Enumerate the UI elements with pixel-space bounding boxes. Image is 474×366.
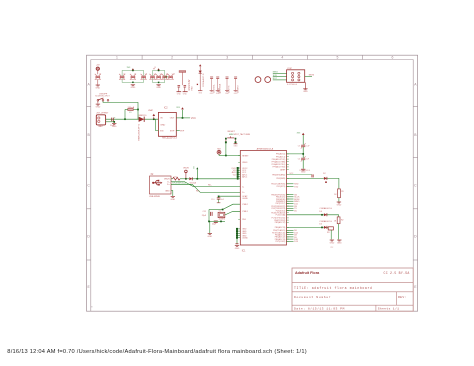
diode D2 bbox=[323, 173, 327, 183]
wire xtal top bbox=[209, 204, 240, 209]
wire row D4 bbox=[287, 214, 324, 216]
svg-text:+3V: +3V bbox=[96, 65, 100, 67]
svg-text:UGND: UGND bbox=[242, 238, 248, 240]
MCU IC1 ATMEGA32U4 bbox=[240, 147, 286, 252]
wire net SCLK bbox=[287, 197, 301, 199]
capacitor C2 group1 bbox=[130, 73, 136, 79]
junction bbox=[218, 196, 220, 198]
wire VBUS to MCU bbox=[197, 178, 240, 180]
wire xtal bottom bbox=[209, 220, 225, 222]
capacitor C11 bbox=[202, 211, 212, 217]
ground bbox=[131, 85, 136, 89]
resistor R3 bbox=[327, 227, 334, 234]
svg-text:C3: C3 bbox=[145, 73, 147, 75]
ground bbox=[96, 104, 101, 108]
svg-text:PF1(ADC1): PF1(ADC1) bbox=[276, 155, 286, 158]
svg-text:GND: GND bbox=[235, 248, 240, 250]
junction bbox=[302, 153, 304, 155]
wire R3 down bbox=[330, 230, 332, 239]
fuse F2 polyfuse bbox=[171, 177, 186, 180]
svg-text:6: 6 bbox=[392, 56, 394, 60]
crystal Y1 16MHz bbox=[218, 210, 226, 220]
svg-text:GND: GND bbox=[131, 87, 136, 89]
capacitor C4 bbox=[298, 156, 310, 161]
svg-text:Document Number: Document Number bbox=[294, 295, 331, 299]
ground bbox=[170, 196, 175, 200]
svg-text:OUT: OUT bbox=[170, 118, 175, 120]
svg-text:VBAT: VBAT bbox=[148, 109, 154, 112]
svg-text:#D0/RX: #D0/RX bbox=[237, 85, 239, 93]
battery connector X1 JST-2PH bbox=[96, 113, 109, 128]
junction bbox=[137, 109, 139, 111]
wire OUT bbox=[176, 117, 190, 119]
wire MCU gnd pins bbox=[236, 228, 241, 244]
wire net RX bbox=[287, 206, 298, 208]
wire MOSI bbox=[305, 75, 315, 77]
slide switch SW1 bbox=[95, 93, 110, 103]
wire R1 gnd bbox=[338, 198, 340, 202]
pad small bbox=[218, 88, 221, 94]
svg-text:1: 1 bbox=[116, 56, 118, 60]
wire net D12 bbox=[287, 232, 299, 234]
pad #D2/SCL bbox=[210, 77, 216, 95]
wire net D11 bbox=[287, 203, 299, 205]
svg-text:UGND: UGND bbox=[242, 198, 248, 200]
svg-text:BYP: BYP bbox=[180, 130, 185, 132]
svg-text:C7: C7 bbox=[99, 73, 101, 75]
ground bbox=[235, 246, 240, 250]
pad #D1/TX bbox=[225, 77, 231, 95]
wire RD- bbox=[171, 182, 240, 187]
label MF-MSMF050-2 bbox=[172, 176, 186, 184]
svg-text:PB6(ADC13): PB6(ADC13) bbox=[275, 226, 286, 229]
wire fuse down bbox=[124, 110, 126, 120]
junction bbox=[208, 221, 222, 223]
label RD- bbox=[208, 185, 212, 187]
ground bbox=[112, 123, 117, 127]
svg-text:Adafruit Flora: Adafruit Flora bbox=[295, 271, 320, 275]
svg-text:CC 2.5 BY-SA: CC 2.5 BY-SA bbox=[384, 271, 410, 275]
svg-text:MISO: MISO bbox=[273, 72, 279, 74]
svg-text:CGRA4007-G: CGRA4007-G bbox=[319, 207, 332, 210]
wire avcc gnd bbox=[302, 160, 304, 169]
svg-text:500mA: 500mA bbox=[190, 181, 197, 184]
svg-text:GND: GND bbox=[160, 124, 165, 126]
svg-text:PD7(OC4D): PD7(OC4D) bbox=[276, 241, 286, 243]
svg-text:GND: GND bbox=[96, 107, 101, 109]
junction bbox=[185, 178, 187, 180]
svg-text:16MHZ: 16MHZ bbox=[219, 219, 226, 221]
svg-text:C2: C2 bbox=[134, 73, 136, 75]
junction bbox=[113, 121, 115, 123]
capacitor C3 group1 bbox=[141, 73, 147, 79]
diode D4 bbox=[324, 213, 327, 216]
sheet frame bbox=[87, 55, 418, 311]
fuse F1 bbox=[125, 106, 138, 114]
ISP header ICSP bbox=[287, 68, 305, 86]
wire net TXD bbox=[287, 186, 299, 188]
svg-text:Date: 8/15/13 11:03 PM: Date: 8/15/13 11:03 PM bbox=[294, 307, 345, 311]
pad #D3/SDA bbox=[216, 77, 222, 95]
label RD+ bbox=[196, 191, 201, 193]
capacitor C6 group2 bbox=[162, 73, 168, 79]
label rotated bbox=[188, 79, 194, 90]
junction bbox=[196, 178, 198, 180]
svg-text:C13: C13 bbox=[172, 73, 175, 75]
wire net TX bbox=[287, 208, 298, 210]
svg-text:MBR120VLSFT1: MBR120VLSFT1 bbox=[139, 123, 141, 140]
svg-text:5: 5 bbox=[336, 56, 338, 60]
capacitor row1 end bbox=[299, 169, 313, 178]
svg-text:F2: F2 bbox=[175, 176, 177, 178]
svg-text:PF4(ADC4/TCK): PF4(ADC4/TCK) bbox=[272, 158, 286, 161]
wire net D10 bbox=[287, 239, 299, 241]
supply +3V3 arrow group2 bbox=[153, 66, 160, 83]
label VCC bbox=[191, 117, 196, 120]
svg-text:3: 3 bbox=[226, 56, 228, 60]
svg-text:R2: R2 bbox=[341, 219, 343, 221]
svg-text:PD1(INT1): PD1(INT1) bbox=[277, 186, 286, 188]
svg-text:GND: GND bbox=[183, 93, 188, 95]
label MBR120 rotated bbox=[139, 123, 141, 140]
ground bbox=[217, 202, 221, 204]
tact switch RESET bbox=[225, 131, 250, 143]
svg-text:GND: GND bbox=[337, 242, 342, 244]
svg-text:BAT: BAT bbox=[99, 125, 104, 128]
wire xtal right bbox=[225, 211, 241, 215]
supply +5V arrow bbox=[194, 166, 199, 179]
svg-text:RESET: RESET bbox=[228, 131, 236, 133]
svg-text:TXD: TXD bbox=[294, 186, 299, 188]
svg-text:PF5(ADC5/TMS): PF5(ADC5/TMS) bbox=[272, 161, 286, 164]
status line bbox=[7, 349, 307, 355]
wire xtal gnd bbox=[209, 221, 211, 233]
svg-text:RD-: RD- bbox=[208, 185, 212, 187]
svg-text:3V3: 3V3 bbox=[218, 92, 221, 94]
wire net D6 bbox=[287, 230, 298, 232]
svg-text:GND: GND bbox=[177, 93, 182, 95]
ground bbox=[303, 82, 308, 93]
svg-text:GND: GND bbox=[330, 242, 335, 244]
wire MISO bbox=[273, 72, 287, 74]
wire RESET bbox=[273, 78, 287, 80]
wire D4 right bbox=[327, 215, 339, 217]
ground bbox=[337, 240, 342, 244]
diode D5 bbox=[324, 226, 327, 229]
svg-text:PE6(INT6/AIN0): PE6(INT6/AIN0) bbox=[272, 174, 285, 177]
svg-text:CGRA4007-G: CGRA4007-G bbox=[202, 73, 205, 87]
svg-text:VBUS: VBUS bbox=[183, 167, 189, 169]
wire net D8 bbox=[287, 235, 298, 237]
svg-text:PB5(ADC12): PB5(ADC12) bbox=[275, 221, 286, 224]
svg-text:XTAL1: XTAL1 bbox=[242, 210, 248, 213]
svg-text:CGRA4007-G: CGRA4007-G bbox=[299, 169, 311, 172]
wire MCU vcc pins bbox=[232, 167, 241, 179]
svg-text:8/16/13 12:04 AM f=0.70 /Use: 8/16/13 12:04 AM f=0.70 /Users/hick/code… bbox=[7, 349, 307, 355]
svg-text:USB-MINIB: USB-MINIB bbox=[149, 196, 160, 198]
wire BYP bbox=[176, 130, 185, 132]
svg-text:4: 4 bbox=[281, 56, 283, 60]
svg-text:GND: GND bbox=[337, 204, 342, 206]
svg-text:PF0(ADC0): PF0(ADC0) bbox=[276, 153, 286, 156]
svg-text:#D1/TX: #D1/TX bbox=[229, 85, 231, 93]
svg-text:EN: EN bbox=[160, 130, 163, 132]
svg-text:Y1: Y1 bbox=[219, 210, 221, 212]
svg-text:PF7(ADC7/TDI): PF7(ADC7/TDI) bbox=[273, 166, 286, 169]
supply +3V3 arrow group1 bbox=[127, 67, 135, 83]
svg-text:D-: D- bbox=[167, 181, 170, 183]
label D4 bbox=[319, 207, 332, 213]
wire loop group2 bbox=[153, 71, 165, 83]
ground bbox=[156, 85, 161, 89]
svg-text:GND: GND bbox=[234, 146, 239, 148]
wire usb gnd bbox=[171, 191, 173, 197]
svg-text:RESET: RESET bbox=[242, 155, 249, 157]
wire switch to fuse bbox=[103, 101, 138, 119]
ground bbox=[330, 240, 335, 249]
title block bbox=[292, 268, 413, 311]
svg-text:GND/3.3V: GND/3.3V bbox=[188, 79, 191, 90]
svg-text:REV:: REV: bbox=[398, 295, 407, 299]
capacitor C13 bbox=[165, 73, 175, 79]
svg-text:C11: C11 bbox=[203, 211, 206, 213]
svg-text:VBUS: VBUS bbox=[242, 162, 248, 164]
svg-text:C4: C4 bbox=[298, 159, 300, 161]
svg-text:F1: F1 bbox=[129, 112, 131, 114]
diode D1 schottky bbox=[139, 115, 148, 122]
svg-text:MOSI: MOSI bbox=[309, 75, 315, 77]
svg-text:PC6(OC3A): PC6(OC3A) bbox=[276, 214, 286, 217]
supply +3V3 at regulator bbox=[176, 107, 184, 118]
svg-text:C1: C1 bbox=[123, 73, 125, 75]
capacitor C10 UCAP bbox=[211, 196, 225, 202]
svg-text:GND: GND bbox=[303, 91, 308, 93]
capacitor C7 bbox=[95, 73, 101, 84]
svg-text:VBUS: VBUS bbox=[164, 179, 170, 181]
usb connector X2 bbox=[149, 174, 171, 198]
ground bbox=[234, 144, 239, 148]
pad #D0/RX bbox=[234, 77, 240, 95]
junction bbox=[225, 155, 227, 157]
wire reset gnd bbox=[235, 142, 237, 144]
regulator IC2 MIC5225 bbox=[158, 108, 177, 140]
ground bbox=[207, 234, 212, 238]
capacitor C3 bbox=[298, 143, 311, 148]
svg-text:BYP: BYP bbox=[170, 130, 175, 132]
wire UCAP bbox=[219, 195, 241, 197]
wire net D5 bbox=[287, 210, 298, 212]
svg-text:GND: GND bbox=[207, 236, 212, 238]
wire net MOSI bbox=[287, 199, 300, 201]
wire net RXD bbox=[287, 184, 299, 186]
supply +3V node bbox=[96, 65, 100, 75]
ground bbox=[301, 169, 306, 173]
svg-text:PF6(ADC6/TDO): PF6(ADC6/TDO) bbox=[272, 163, 286, 166]
svg-text:PB7(OC1C): PB7(OC1C) bbox=[276, 203, 286, 205]
label 500mA bbox=[190, 181, 197, 184]
svg-text:SPST_TACT 6MM: SPST_TACT 6MM bbox=[234, 133, 251, 136]
svg-text:GND: GND bbox=[156, 87, 161, 89]
wire pin stubs bbox=[238, 154, 289, 241]
svg-text:GND: GND bbox=[301, 172, 306, 174]
wire net D13 bbox=[287, 241, 299, 243]
svg-text:Sheets 1/1: Sheets 1/1 bbox=[378, 307, 400, 311]
svg-text:R3: R3 bbox=[327, 232, 329, 234]
capacitor C12 bbox=[212, 221, 218, 226]
svg-text:PAD: PAD bbox=[191, 86, 194, 91]
svg-text:MBR120: MBR120 bbox=[139, 115, 148, 117]
svg-text:R1: R1 bbox=[341, 191, 343, 193]
svg-text:2: 2 bbox=[171, 56, 173, 60]
wire battery - bbox=[106, 121, 115, 123]
supply VBAT arrow bbox=[148, 109, 155, 119]
junction bbox=[222, 209, 224, 211]
wire loop group1 bbox=[122, 71, 144, 83]
label D5 bbox=[319, 220, 332, 225]
diode D9 bbox=[186, 177, 197, 180]
resistor R2 bbox=[334, 217, 344, 224]
svg-text:JST_2PHKIT: JST_2PHKIT bbox=[96, 113, 109, 115]
wire xtal left bbox=[208, 210, 210, 222]
capacitor C8 bbox=[110, 116, 116, 127]
junction bbox=[182, 117, 184, 119]
wire D2 to R1 bbox=[327, 178, 339, 189]
capacitor C5 group2 bbox=[156, 73, 162, 79]
wire avcc mid bbox=[302, 147, 304, 158]
diode D1 column bbox=[197, 64, 205, 94]
svg-text:C3: C3 bbox=[298, 146, 300, 148]
wire row1 bbox=[287, 173, 312, 175]
pad SW with grounds bbox=[177, 71, 188, 96]
ground bbox=[337, 202, 342, 206]
wire battery + bbox=[106, 118, 159, 120]
junction bbox=[237, 178, 239, 180]
supply VBUS node bbox=[183, 167, 189, 179]
supply +3V3 AVCC bbox=[297, 132, 305, 144]
svg-text:GND: GND bbox=[95, 87, 100, 89]
svg-text:#D2/SCL: #D2/SCL bbox=[213, 83, 215, 93]
svg-text:C10: C10 bbox=[211, 199, 214, 201]
junction bbox=[153, 118, 155, 120]
ground bbox=[95, 85, 100, 89]
wire reset to MCU bbox=[226, 143, 240, 156]
svg-text:ICSP: ICSP bbox=[287, 68, 292, 70]
wire SCK bbox=[273, 75, 287, 77]
capacitor C1 group1 bbox=[119, 73, 125, 79]
mounting hole H1 bbox=[255, 77, 261, 83]
svg-text:AVCC: AVCC bbox=[242, 176, 248, 179]
mounting hole H2 bbox=[265, 77, 271, 83]
svg-text:ATMEGA32U4-A: ATMEGA32U4-A bbox=[257, 147, 274, 150]
wire AVCC to MCU bbox=[287, 153, 304, 155]
svg-text:SLIDESW_SPDT: SLIDESW_SPDT bbox=[95, 96, 110, 98]
wire net SS bbox=[287, 195, 298, 197]
wire EN tie bbox=[156, 119, 159, 130]
wire net MISO bbox=[287, 201, 300, 203]
wire net D9 bbox=[287, 237, 298, 239]
svg-text:6-127044-0: 6-127044-0 bbox=[287, 84, 298, 86]
junction bbox=[124, 118, 126, 120]
svg-text:GND: GND bbox=[112, 126, 117, 128]
wire row D5 bbox=[287, 227, 324, 229]
wire row2 D2 bbox=[287, 177, 324, 179]
svg-text:MF-MSMF050-2: MF-MSMF050-2 bbox=[172, 182, 186, 184]
svg-text:MIC5225-3.3: MIC5225-3.3 bbox=[162, 136, 177, 139]
svg-text:SCK: SCK bbox=[273, 75, 278, 77]
reset pad node bbox=[217, 148, 226, 155]
svg-text:XTAL2: XTAL2 bbox=[242, 203, 248, 206]
capacitor C4 group2 bbox=[150, 73, 156, 79]
resistor R1 bbox=[334, 189, 343, 198]
wire R2 down bbox=[338, 224, 340, 240]
svg-text:PE2(HWB): PE2(HWB) bbox=[276, 178, 285, 180]
svg-text:VCC: VCC bbox=[191, 117, 196, 120]
svg-text:GND: GND bbox=[165, 190, 170, 192]
wire RD+ bbox=[171, 184, 240, 192]
svg-text:GND: GND bbox=[170, 199, 175, 201]
svg-text:TITLE: adafruit flora mainboa: TITLE: adafruit flora mainboard bbox=[294, 286, 373, 290]
svg-text:500mA: 500mA bbox=[128, 106, 135, 109]
svg-text:PE6: PE6 bbox=[242, 219, 246, 221]
